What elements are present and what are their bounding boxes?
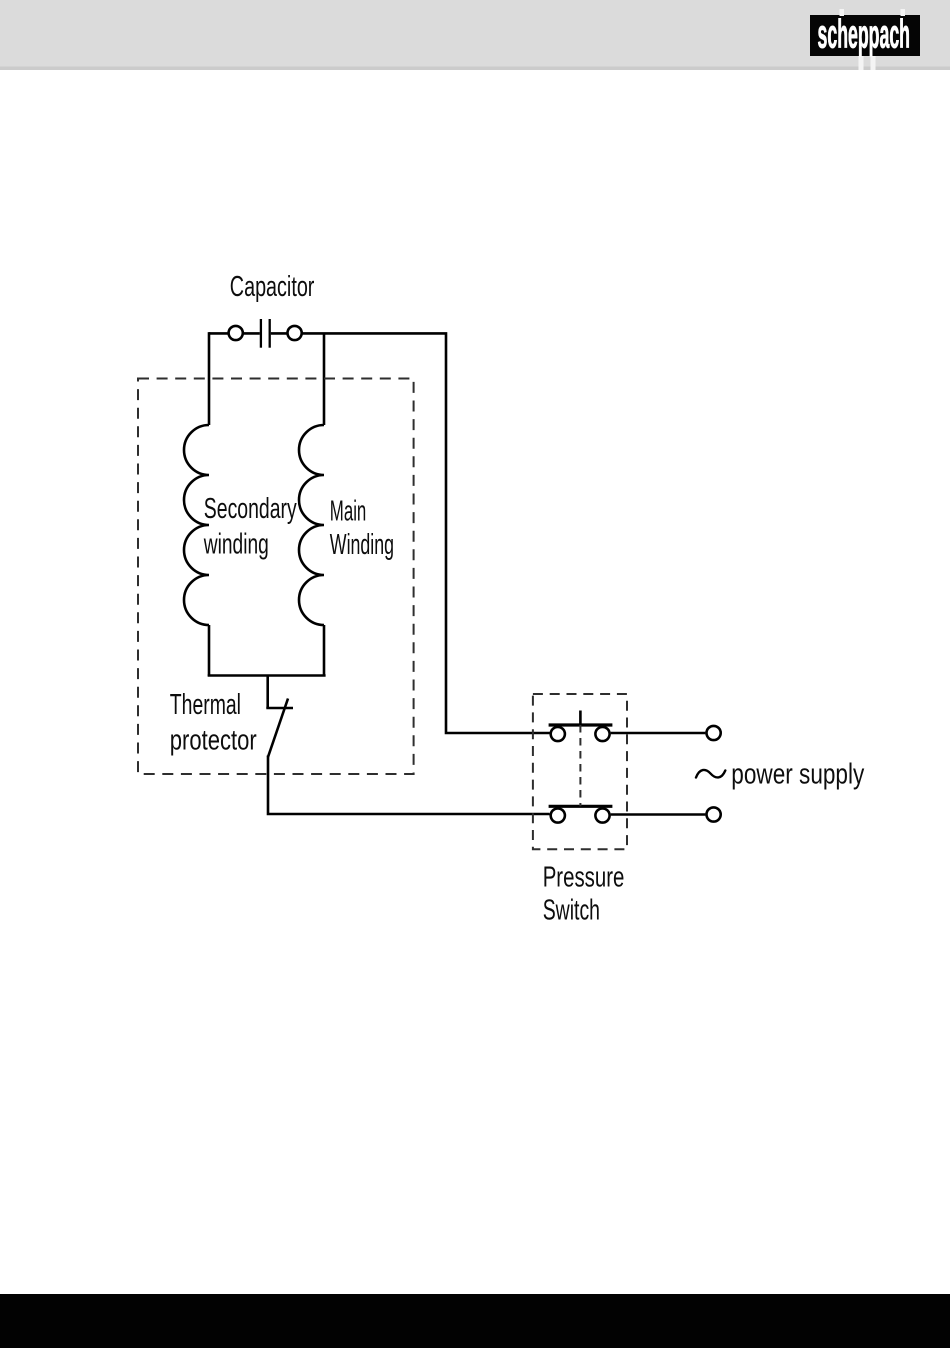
power supply terminal circle lower <box>707 807 721 821</box>
pressure switch upper actuator tick <box>579 711 582 726</box>
capacitor terminal circle right <box>288 326 302 340</box>
pressure switch dashed actuator link <box>579 725 581 806</box>
svg-text:Winding: Winding <box>330 529 394 561</box>
wire: capacitor left stub <box>209 332 229 335</box>
power supply terminal circle upper <box>707 726 721 740</box>
capacitor terminal circle left <box>229 326 243 340</box>
scheppach logo p-descender slivers <box>859 56 864 70</box>
wire: capacitor output to corner, down, to pressure switch <box>301 333 550 733</box>
wire: capacitor plate-to-circle right <box>271 332 287 335</box>
pressure switch lower contact circle right <box>595 808 609 822</box>
svg-text:Secondary: Secondary <box>204 493 297 525</box>
wire: thermal protector to lower pressure switch contact <box>268 756 550 815</box>
pressure switch upper contact circle right <box>595 727 609 741</box>
main winding coil <box>299 425 324 625</box>
wire: secondary winding left leg from capacitor <box>208 332 211 425</box>
pressure switch dashed enclosure <box>533 694 627 849</box>
svg-text:protector: protector <box>170 724 257 756</box>
wire: upper contact to terminal <box>611 732 706 735</box>
svg-text:power supply: power supply <box>731 759 865 791</box>
pressure switch lower bridge bar <box>549 805 613 808</box>
footer black bar <box>0 1294 950 1348</box>
pressure switch upper bridge bar <box>549 723 613 726</box>
svg-text:Thermal: Thermal <box>170 689 241 721</box>
svg-text:Switch: Switch <box>543 894 600 926</box>
svg-text:winding: winding <box>203 529 269 561</box>
motor dashed enclosure <box>138 379 414 775</box>
svg-text:Main: Main <box>330 495 367 527</box>
scheppach logo box <box>810 15 920 56</box>
wire: secondary winding bottom leg <box>208 625 211 676</box>
pressure switch lower contact circle left <box>551 808 565 822</box>
svg-text:scheppach: scheppach <box>818 13 911 57</box>
thermal protector blade <box>268 699 288 758</box>
capacitor plate left <box>260 319 262 348</box>
scheppach logo h-ascender slivers <box>840 9 845 16</box>
wire: main winding bottom leg <box>323 625 326 676</box>
wire: common node down to thermal protector <box>266 675 269 708</box>
wire: main winding top leg <box>323 333 326 425</box>
wire: capacitor circle-to-plate left <box>243 332 260 335</box>
wire: winding common bottom bar <box>208 674 326 677</box>
svg-text:Capacitor: Capacitor <box>230 271 315 303</box>
wire: lower contact to terminal <box>611 813 706 816</box>
AC tilde symbol <box>696 770 725 778</box>
header bar <box>0 0 950 70</box>
header bar bottom edge <box>0 67 950 71</box>
capacitor plate right <box>269 319 271 348</box>
svg-text:Pressure: Pressure <box>543 861 625 893</box>
thermal protector fixed contact bar <box>266 707 293 710</box>
secondary winding coil <box>184 425 209 625</box>
pressure switch upper contact circle left <box>551 727 565 741</box>
